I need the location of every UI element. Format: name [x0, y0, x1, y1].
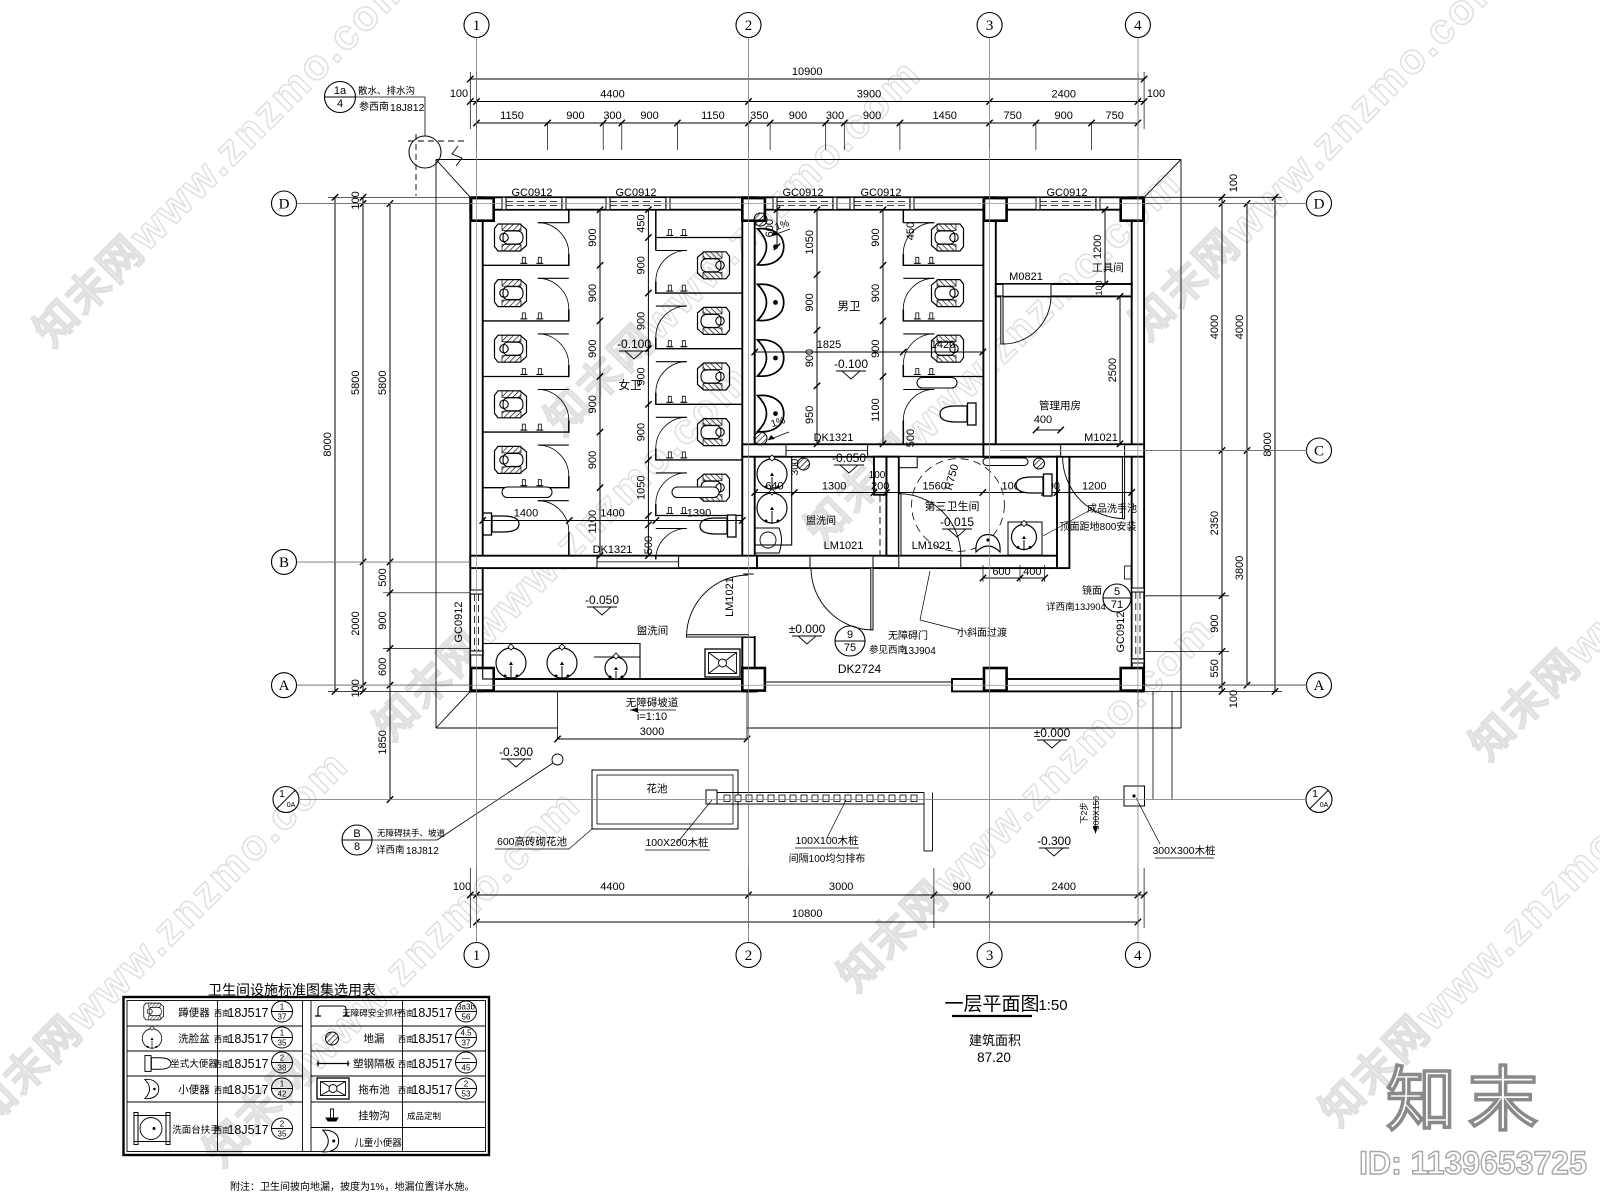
legend column lines	[217, 1001, 219, 1152]
mens urinals	[758, 229, 784, 265]
apron outline bottom	[436, 727, 558, 729]
svg-text:900: 900	[587, 284, 599, 302]
right steps	[1152, 691, 1154, 799]
axis line 3	[989, 38, 991, 942]
door M0821 tool room, hinge west jamb, swings south	[1003, 296, 1051, 344]
mens bench grab bar	[917, 378, 957, 389]
svg-text:18J517: 18J517	[411, 1032, 452, 1046]
svg-text:小斜面过渡: 小斜面过渡	[957, 626, 1007, 639]
svg-text:18J812: 18J812	[390, 102, 425, 114]
svg-text:1: 1	[280, 1080, 285, 1089]
axis bubble 2 bottom	[736, 943, 761, 968]
svg-text:100X100木桩: 100X100木桩	[795, 834, 859, 847]
svg-text:2: 2	[280, 1120, 285, 1129]
accessible door detail circle 9/75	[835, 626, 865, 656]
svg-text:-0.300: -0.300	[499, 745, 533, 759]
svg-text:550: 550	[1209, 659, 1221, 677]
svg-text:GC0912: GC0912	[861, 187, 902, 199]
interior wall axis 3 (mens room east wall)	[983, 197, 995, 456]
axis line overlays	[476, 38, 478, 942]
ramp dim 3000	[558, 738, 748, 740]
svg-text:1: 1	[280, 1029, 285, 1038]
svg-text:18J517: 18J517	[411, 1083, 452, 1097]
window GC0912 right wall niche	[1131, 592, 1133, 659]
svg-text:8000: 8000	[1262, 432, 1274, 456]
svg-text:GC0912: GC0912	[1047, 187, 1088, 199]
svg-text:参见西南: 参见西南	[869, 644, 907, 656]
svg-text:建筑面积: 建筑面积	[969, 1033, 1021, 1048]
opening DK1321 in row C wall (mens room entry)	[786, 445, 868, 456]
svg-text:DK1321: DK1321	[593, 544, 633, 556]
svg-text:无障碍坡道: 无障碍坡道	[626, 696, 679, 709]
svg-text:1: 1	[1312, 789, 1318, 800]
exterior wall top (axis D)	[470, 197, 1144, 209]
svg-text:900: 900	[635, 256, 647, 274]
apron outline left	[435, 160, 437, 729]
axis bubble A left	[272, 673, 297, 698]
svg-text:8000: 8000	[322, 432, 334, 456]
axis line 4	[1137, 38, 1139, 942]
womens right stall partitions	[656, 237, 743, 239]
svg-text:知末: 知末	[1386, 1061, 1550, 1139]
womens room dim chain right 450+900x4+1050+500	[647, 210, 649, 556]
svg-text:3: 3	[986, 18, 994, 34]
svg-text:300: 300	[826, 110, 844, 122]
svg-text:±0.000: ±0.000	[1034, 726, 1071, 740]
svg-text:—: —	[462, 1054, 470, 1063]
svg-text:D: D	[1314, 197, 1325, 213]
mens floor drains with 1% arrows	[754, 213, 767, 226]
svg-text:下2步: 下2步	[1079, 802, 1089, 824]
svg-text:18J517: 18J517	[227, 1123, 268, 1137]
exterior wall right (axis 4)	[1132, 197, 1144, 691]
interior wall row B middle strip (corridor north wall)	[757, 556, 1057, 568]
svg-text:B: B	[353, 828, 360, 840]
svg-text:900: 900	[587, 395, 599, 413]
svg-text:300: 300	[790, 458, 801, 475]
legend row: steel partition	[318, 1063, 348, 1065]
svg-text:1390: 1390	[687, 508, 711, 520]
svg-text:镜面: 镜面	[1082, 584, 1102, 597]
svg-text:37: 37	[462, 1039, 471, 1048]
svg-text:950: 950	[804, 406, 816, 424]
mens stall partitions	[903, 264, 983, 266]
svg-text:900: 900	[635, 423, 647, 441]
accessible ramp lines	[557, 691, 559, 739]
svg-text:100: 100	[1147, 88, 1165, 100]
svg-text:5800: 5800	[377, 370, 389, 394]
svg-text:1150: 1150	[701, 110, 725, 122]
svg-text:挂物沟: 挂物沟	[358, 1109, 390, 1122]
opening LM1021 washroom west door in axis2 wall	[743, 574, 754, 637]
axis line B (left only)	[297, 561, 470, 563]
svg-text:2000: 2000	[350, 611, 362, 635]
womens left stall doors	[538, 222, 569, 224]
detail circle B/8 accessible handrail	[342, 825, 372, 855]
opening LM1021 corridor to mens washroom strip	[810, 557, 873, 568]
svg-text:3000: 3000	[829, 881, 853, 893]
svg-text:3800: 3800	[1234, 556, 1246, 580]
svg-text:35: 35	[278, 1130, 287, 1139]
wood pile 300x300 right	[1124, 786, 1145, 806]
tool room dim 1200	[1104, 210, 1106, 284]
mens stall front wall	[902, 210, 904, 223]
svg-text:无障碍扶手、坡道: 无障碍扶手、坡道	[377, 828, 446, 838]
svg-text:B: B	[279, 555, 289, 571]
svg-text:2350: 2350	[1209, 511, 1221, 535]
right dim extension lines	[1145, 196, 1282, 198]
svg-text:900: 900	[377, 611, 389, 629]
svg-text:±0.000: ±0.000	[789, 622, 826, 636]
svg-text:100: 100	[869, 470, 886, 481]
svg-text:100: 100	[350, 679, 362, 697]
womens accessible WC bottom-right	[700, 515, 736, 537]
flower bed	[592, 770, 738, 829]
svg-text:900: 900	[1209, 614, 1221, 632]
svg-text:坐式大便器: 坐式大便器	[170, 1058, 218, 1070]
svg-text:600: 600	[377, 658, 389, 676]
opening M0821 tool room door	[1003, 285, 1051, 296]
svg-text:1100: 1100	[870, 398, 882, 422]
svg-text:1450: 1450	[932, 110, 956, 122]
svg-text:4400: 4400	[600, 89, 624, 101]
window GC0912 mens 1	[777, 198, 833, 209]
svg-text:1400: 1400	[514, 508, 538, 520]
svg-text:A: A	[279, 678, 290, 694]
legend row: accessible grab bar	[315, 1006, 349, 1016]
svg-text:GC0912: GC0912	[616, 187, 657, 199]
apron corner diagonals	[436, 160, 470, 198]
legend row: sitting WC	[145, 1056, 171, 1072]
svg-text:散水、排水沟: 散水、排水沟	[358, 85, 415, 97]
svg-text:5: 5	[1114, 586, 1120, 598]
svg-text:1420: 1420	[931, 339, 955, 351]
svg-text:4: 4	[337, 98, 343, 110]
womens room left stall front wall	[568, 254, 570, 266]
svg-text:LM1021: LM1021	[912, 540, 952, 552]
svg-text:2: 2	[745, 18, 753, 34]
svg-text:200: 200	[871, 481, 889, 493]
svg-text:详西南13J904: 详西南13J904	[1046, 601, 1106, 613]
svg-text:56: 56	[462, 1013, 471, 1022]
axis line C (right only)	[1000, 450, 1307, 452]
svg-text:750: 750	[1004, 110, 1022, 122]
mens room dim chain x817 1050/900/900/950	[816, 210, 818, 444]
svg-text:3900: 3900	[857, 89, 881, 101]
third toilet WC	[1016, 474, 1052, 496]
svg-text:100: 100	[350, 191, 362, 209]
bottom dim row 4400 3000 900 2400	[470, 894, 1144, 896]
svg-text:1: 1	[280, 1003, 285, 1012]
svg-text:640: 640	[765, 481, 783, 493]
svg-text:-0.015: -0.015	[940, 515, 974, 529]
axis bubble 3 bottom	[977, 943, 1002, 968]
svg-text:750: 750	[1106, 110, 1124, 122]
svg-text:900: 900	[863, 110, 881, 122]
svg-text:18J517: 18J517	[227, 1083, 268, 1097]
axis bubble 1 bottom	[464, 943, 489, 968]
legend table frame	[124, 997, 490, 1155]
svg-text:管理用房: 管理用房	[1039, 399, 1081, 412]
svg-text:DK1321: DK1321	[814, 432, 854, 444]
svg-text:600: 600	[764, 219, 776, 237]
interior wall third toilet west (x886-899)	[886, 457, 898, 556]
svg-text:1300: 1300	[822, 481, 846, 493]
svg-text:900: 900	[587, 451, 599, 469]
svg-text:参西南: 参西南	[359, 100, 389, 113]
interior wall row B under womens room	[470, 556, 757, 568]
svg-text:500: 500	[377, 568, 389, 586]
svg-text:DK2724: DK2724	[838, 662, 882, 676]
window GC0912 womens 2	[610, 198, 666, 209]
legend row: floor drain	[326, 1032, 339, 1045]
svg-text:18J517: 18J517	[227, 1057, 268, 1071]
svg-text:儿童小便器: 儿童小便器	[354, 1137, 402, 1149]
svg-text:GC0912: GC0912	[1115, 612, 1127, 653]
svg-text:成品定制: 成品定制	[407, 1111, 441, 1121]
interior wall row C mens room south	[742, 444, 996, 456]
apron outline top	[436, 159, 1181, 161]
dim 600/400 below third toilet	[983, 577, 1045, 579]
svg-text:10800: 10800	[792, 908, 823, 920]
axis bubble D left	[272, 191, 297, 216]
axis line 1	[476, 38, 478, 942]
svg-text:1200: 1200	[1092, 235, 1104, 259]
svg-text:1825: 1825	[817, 339, 841, 351]
svg-text:350: 350	[750, 110, 768, 122]
svg-text:450: 450	[635, 214, 647, 232]
svg-text:900: 900	[1055, 110, 1073, 122]
svg-text:100: 100	[450, 88, 468, 100]
svg-text:87.20: 87.20	[977, 1050, 1011, 1065]
left dim extension lines	[328, 196, 470, 198]
svg-text:0A: 0A	[1320, 802, 1329, 809]
mens horizontal dims 1825/1420	[755, 351, 983, 353]
womens right stall front wall	[655, 210, 657, 251]
svg-text:450: 450	[905, 222, 917, 240]
svg-text:900: 900	[804, 293, 816, 311]
svg-text:小便器: 小便器	[178, 1083, 210, 1096]
svg-text:600: 600	[992, 566, 1010, 578]
interior wall axis 2 (between womens room and mens area)	[742, 197, 754, 568]
svg-text:71: 71	[1111, 599, 1123, 611]
svg-text:花池: 花池	[647, 782, 668, 795]
svg-text:GC0912: GC0912	[783, 187, 824, 199]
mirror marks on niche east wall	[1125, 566, 1132, 579]
womens left stall partitions	[483, 264, 569, 266]
svg-text:1: 1	[473, 18, 481, 34]
svg-text:4: 4	[1134, 948, 1142, 964]
top dim row small segments	[477, 122, 1138, 124]
axis bubble D right	[1307, 191, 1332, 216]
legend row lines right half	[311, 1025, 486, 1027]
svg-text:1850: 1850	[377, 730, 389, 754]
opening LM1021 corridor to third toilet	[899, 557, 961, 568]
axis line 1/0A	[299, 799, 1306, 801]
svg-text:GC0912: GC0912	[512, 187, 553, 199]
svg-text:4: 4	[1134, 18, 1142, 34]
svg-text:i=1:10: i=1:10	[637, 711, 667, 723]
drain detail circle at canopy corner	[409, 136, 441, 168]
svg-text:1050: 1050	[804, 230, 816, 254]
exterior wall bottom-left (washroom, axis A)	[470, 679, 757, 691]
svg-text:第三卫生间: 第三卫生间	[925, 499, 980, 513]
womens right squat toilets	[698, 252, 730, 279]
mens washroom counter and basins	[755, 457, 792, 545]
svg-text:盥洗间: 盥洗间	[637, 624, 669, 637]
svg-text:100: 100	[1228, 690, 1240, 708]
third toilet leader to prefab basin	[1043, 509, 1092, 536]
svg-text:无障碍门: 无障碍门	[888, 629, 928, 642]
bottom dim extension lines	[469, 868, 471, 928]
svg-text:600高砖砌花池: 600高砖砌花池	[497, 835, 568, 848]
svg-text:18J812: 18J812	[406, 846, 439, 857]
svg-text:2400: 2400	[1052, 881, 1076, 893]
svg-text:900: 900	[587, 340, 599, 358]
right dim chain inner 100/4000/2350/900/550/100	[1221, 197, 1223, 691]
svg-text:-0.050: -0.050	[832, 451, 866, 465]
interior wall washroom-strip / third-toilet divider x874-886	[874, 457, 886, 495]
axis bubble B left	[272, 549, 297, 574]
curtain dashed line washroom strip divider	[879, 495, 881, 555]
svg-text:10900: 10900	[792, 66, 823, 78]
svg-text:100: 100	[1094, 280, 1104, 295]
svg-text:37: 37	[278, 1013, 287, 1022]
svg-text:900: 900	[566, 110, 584, 122]
svg-text:500: 500	[905, 429, 917, 447]
svg-text:M0821: M0821	[1009, 271, 1043, 283]
legend row: urinal	[145, 1079, 159, 1098]
left dim chain outer 8000	[334, 197, 336, 691]
svg-text:3000: 3000	[640, 726, 664, 738]
svg-text:顶面距地800安装: 顶面距地800安装	[1060, 520, 1137, 533]
washroom mop pool	[705, 649, 740, 677]
interior wall row C management room south	[983, 444, 1144, 456]
svg-text:1200: 1200	[1082, 481, 1106, 493]
svg-text:1: 1	[279, 789, 285, 800]
top dim row 4400 3900 2400	[470, 101, 1144, 103]
window GC0912 womens 1	[506, 198, 562, 209]
axis line 2	[748, 38, 750, 942]
svg-text:35: 35	[278, 1039, 287, 1048]
svg-text:女卫: 女卫	[619, 378, 642, 392]
svg-text:400: 400	[1034, 414, 1052, 426]
svg-text:8: 8	[354, 841, 360, 853]
svg-text:2500: 2500	[1107, 358, 1119, 382]
svg-text:18J517: 18J517	[227, 1006, 268, 1020]
mens room dim chain x883 900x3+1100	[882, 210, 884, 444]
svg-text:18J517: 18J517	[411, 1057, 452, 1071]
axis bubble 3 top	[977, 13, 1002, 38]
legend row: child urinal	[323, 1130, 339, 1152]
womens room dim chain left 900x5+1100	[599, 210, 601, 556]
svg-text:1: 1	[473, 948, 481, 964]
window GC0912 tool room	[1040, 198, 1096, 209]
mens accessible WC	[940, 403, 976, 425]
svg-text:2: 2	[745, 948, 753, 964]
svg-text:-0.100: -0.100	[617, 337, 651, 351]
svg-text:100: 100	[453, 881, 471, 893]
exterior wall bottom-right (axis A)	[952, 679, 1144, 691]
svg-text:53: 53	[462, 1090, 471, 1099]
svg-text:900: 900	[870, 284, 882, 302]
opening DK1321 in row B wall (womens room entry)	[597, 557, 679, 568]
svg-text:LM1021: LM1021	[724, 577, 736, 617]
svg-text:盥洗间: 盥洗间	[806, 514, 836, 527]
womens right stall doors	[656, 250, 687, 252]
svg-text:一层平面图: 一层平面图	[944, 994, 1039, 1015]
svg-text:蹲便器: 蹲便器	[178, 1006, 210, 1019]
svg-text:300X300木桩: 300X300木桩	[1152, 844, 1216, 857]
svg-text:5800: 5800	[350, 370, 362, 394]
svg-text:洗脸盆: 洗脸盆	[178, 1032, 210, 1045]
womens grab bar right	[672, 487, 719, 498]
legend row: washstand handrail	[134, 1113, 170, 1145]
svg-text:ID: 1139653725: ID: 1139653725	[1359, 1145, 1587, 1181]
svg-text:2: 2	[280, 1054, 285, 1063]
svg-text:1400: 1400	[600, 508, 624, 520]
womens accessible WC bottom-left	[483, 513, 519, 535]
svg-text:-0.100: -0.100	[834, 357, 868, 371]
axis bubble 4 top	[1125, 13, 1150, 38]
washroom counter with basins	[483, 644, 640, 680]
svg-text:1050: 1050	[635, 475, 647, 499]
svg-text:400: 400	[1023, 566, 1041, 578]
svg-text:900: 900	[635, 312, 647, 330]
svg-text:100: 100	[1228, 174, 1240, 192]
mens stall doors	[903, 222, 934, 224]
legend row: wash basin	[142, 1026, 161, 1049]
third toilet floor drain	[1034, 458, 1045, 469]
wood pile strip	[706, 792, 924, 794]
right dim chain mid 4000/3800	[1246, 204, 1248, 686]
svg-text:18J517: 18J517	[411, 1006, 452, 1020]
svg-text:4400: 4400	[600, 881, 624, 893]
window GC0912 mens 2	[854, 198, 910, 209]
apron outline right	[1180, 160, 1182, 729]
svg-text:3a3b: 3a3b	[457, 1003, 475, 1012]
svg-text:0A: 0A	[287, 802, 296, 809]
svg-text:900: 900	[587, 228, 599, 246]
svg-text:附注：卫生间披向地漏，披度为1%，地漏位置详水施。: 附注：卫生间披向地漏，披度为1%，地漏位置详水施。	[230, 1180, 474, 1193]
axis bubble 2 top	[736, 13, 761, 38]
axis bubble 1/0A right	[1306, 787, 1332, 813]
column grid corner piers	[471, 198, 494, 221]
womens room horizontal dims 1400/1400/1390	[483, 520, 743, 522]
svg-text:75: 75	[844, 642, 856, 654]
third toilet shelf	[899, 457, 917, 468]
svg-text:13J904: 13J904	[903, 646, 936, 657]
right dim chain outer 8000	[1274, 197, 1276, 691]
svg-text:工具间: 工具间	[1092, 261, 1124, 274]
third toilet wash basin in counter	[1008, 522, 1042, 555]
svg-text:间隔100均匀排布: 间隔100均匀排布	[789, 852, 866, 865]
svg-text:38: 38	[278, 1064, 287, 1073]
svg-text:4,5: 4,5	[460, 1029, 472, 1038]
management room dim 2500	[1119, 296, 1121, 443]
door M1021 management room, hinge east jamb, swings south into niche	[1063, 457, 1125, 519]
interior wall third toilet east (x1057-1069)	[1057, 457, 1069, 568]
top dim extension lines	[476, 123, 478, 150]
svg-text:4000: 4000	[1234, 315, 1246, 339]
mens squat toilets	[932, 224, 964, 251]
svg-text:300: 300	[603, 110, 621, 122]
svg-text:拖布池: 拖布池	[358, 1083, 390, 1096]
axis line D	[297, 203, 1307, 205]
svg-text:C: C	[1314, 444, 1324, 460]
svg-text:4000: 4000	[1209, 315, 1221, 339]
svg-text:900: 900	[870, 228, 882, 246]
